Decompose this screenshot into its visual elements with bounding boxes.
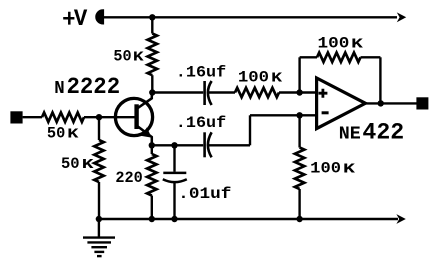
node junction top (collector branch) — [149, 14, 155, 20]
resistor 50K (base to ground) — [94, 140, 103, 182]
arrowhead ground rail — [396, 214, 405, 224]
resistor 50K (base series) — [42, 113, 84, 122]
wire feedback left vertical — [298, 57, 300, 92]
capacitor C1 .16uf (curved plate) — [208, 81, 212, 105]
wire up to - row — [249, 115, 251, 145]
wire op-amp output — [365, 102, 416, 104]
svg-text:.16uf: .16uf — [176, 63, 226, 81]
ground — [83, 219, 115, 256]
node emitter junction — [149, 142, 155, 148]
wire - row to op-amp — [250, 114, 316, 116]
transistor Q1 base bar — [134, 104, 138, 129]
svg-text:50K: 50K — [113, 48, 144, 66]
svg-text:100K: 100K — [310, 159, 356, 177]
op-amp - input mark — [322, 111, 329, 114]
wire 100K to op-amp + input — [279, 91, 315, 93]
capacitor C3 .01uf (curved plate) — [163, 179, 187, 182]
node collector junction — [149, 89, 155, 95]
svg-text:V: V — [74, 6, 88, 32]
wire C1 to 100K — [208, 91, 235, 93]
emitter arrowhead — [141, 127, 151, 137]
wire .01uf to ground rail — [173, 182, 175, 219]
wire 50K to ground rail — [98, 182, 100, 219]
wire base node down — [98, 117, 100, 140]
node rail 100K — [296, 216, 302, 222]
wire C2 right — [208, 144, 250, 146]
node - input / 100K tap — [296, 112, 302, 118]
node output junction — [378, 100, 384, 106]
capacitor C3 .01uf (top plate) — [163, 172, 186, 175]
svg-text:100K: 100K — [238, 68, 283, 86]
wire - node down to 100K — [298, 115, 300, 147]
wire feedback right vertical — [379, 57, 381, 103]
wire input to 50K base — [23, 116, 42, 118]
svg-text:100K: 100K — [318, 35, 365, 53]
op-amp NE422 triangle — [317, 78, 366, 129]
node .01uf branch — [171, 142, 177, 148]
label +V — [63, 12, 74, 25]
resistor 50K (collector load) — [148, 34, 157, 76]
wire base into transistor — [116, 116, 135, 118]
transistor Q1 N2222 body — [115, 98, 152, 135]
transistor Q1 emitter lead — [138, 126, 152, 145]
wire emitter row — [152, 144, 203, 146]
capacitor C1 .16uf (left plate) — [203, 81, 206, 105]
resistor 100K (to ground) — [295, 148, 304, 190]
output terminal — [416, 97, 428, 109]
svg-text:N2222: N2222 — [54, 74, 120, 101]
wire 220 to ground rail — [151, 196, 153, 220]
transistor Q1 collector lead — [138, 93, 152, 109]
wire .01uf top — [173, 145, 175, 171]
wire ground rail — [99, 218, 398, 220]
arrowhead top rail — [397, 12, 406, 22]
svg-text:50K: 50K — [61, 155, 95, 173]
resistor 100K (non-inverting input) — [235, 88, 279, 97]
svg-text:.16uf: .16uf — [176, 114, 226, 132]
resistor 100K feedback — [317, 53, 361, 62]
wire feedback top left — [300, 56, 317, 58]
wire +V to 50K top — [151, 17, 153, 33]
capacitor C2 .16uf (left plate) — [203, 132, 206, 157]
wire top rail — [103, 16, 397, 18]
node rail .01uf — [171, 216, 177, 222]
supply terminal +V — [96, 10, 102, 23]
wire 220 branch — [151, 145, 153, 154]
svg-text:.01uf: .01uf — [178, 185, 231, 203]
wire 50K to collector node — [151, 75, 153, 92]
resistor 220 (emitter) — [147, 154, 156, 196]
node rail 220 — [149, 216, 155, 222]
op-amp + input mark — [319, 89, 328, 98]
svg-text:220: 220 — [115, 169, 142, 187]
wire 100K to ground rail — [298, 189, 300, 219]
node rail 50K — [96, 216, 102, 222]
wire feedback top right — [361, 56, 381, 58]
node base junction — [96, 114, 102, 120]
wire collector node to C1 — [152, 91, 203, 93]
input terminal — [10, 111, 22, 123]
svg-text:NE422: NE422 — [339, 119, 404, 146]
capacitor C2 .16uf (curved plate) — [208, 132, 212, 157]
svg-text:50K: 50K — [47, 124, 80, 142]
node + input / feedback tap — [296, 89, 302, 95]
wire 50K to base node — [84, 116, 116, 118]
